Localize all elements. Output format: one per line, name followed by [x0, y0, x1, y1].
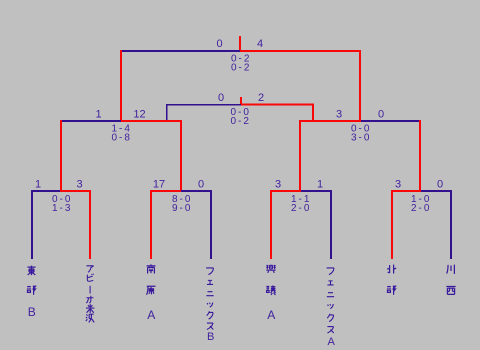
svg-text:0: 0 [198, 179, 204, 191]
name アビーカ米沢 [86, 266, 95, 323]
third-place right vertical [312, 104, 314, 120]
QF1 stub [60, 120, 62, 190]
third-place left vertical [166, 104, 167, 120]
svg-text:17: 17 [153, 179, 165, 191]
svg-text:9 - 0: 9 - 0 [172, 203, 191, 214]
svg-text:A: A [328, 336, 336, 348]
team line 南原A [150, 190, 152, 259]
QF3 line red half [270, 190, 301, 192]
team line 北部 [391, 190, 393, 259]
svg-text:12: 12 [133, 109, 145, 121]
final left vertical [120, 50, 122, 120]
QF3 stub [299, 120, 301, 190]
QF4 line red half [391, 190, 421, 192]
svg-text:3: 3 [336, 109, 342, 121]
svg-text:3: 3 [275, 179, 281, 191]
svg-text:1: 1 [35, 179, 41, 191]
name 興譲A [266, 265, 275, 322]
svg-text:3 - 0: 3 - 0 [351, 133, 370, 144]
svg-text:1: 1 [317, 179, 323, 191]
svg-text:2: 2 [258, 92, 264, 104]
QF1 line purple half [31, 190, 60, 192]
third-place line red half [241, 104, 314, 106]
svg-text:0: 0 [437, 179, 443, 191]
svg-text:0: 0 [216, 38, 222, 50]
team line 川西 [450, 190, 452, 259]
svg-text:3: 3 [395, 179, 401, 191]
name 南原A [147, 264, 156, 322]
team line 東部B [31, 190, 33, 259]
left semi purple half [60, 120, 121, 122]
final line purple half [120, 50, 240, 52]
svg-text:0: 0 [218, 92, 224, 104]
QF2 line purple half [181, 190, 212, 192]
champion stub [239, 36, 241, 50]
svg-text:3: 3 [76, 179, 82, 191]
svg-text:0 - 8: 0 - 8 [111, 133, 130, 144]
right semi red half [299, 120, 361, 122]
final line red half [240, 50, 361, 52]
svg-text:0 - 2: 0 - 2 [231, 63, 250, 74]
team line フェニックスB [210, 190, 212, 259]
QF2 line red half [150, 190, 181, 192]
svg-text:B: B [207, 331, 214, 343]
svg-text:B: B [28, 305, 36, 319]
final right vertical [359, 50, 361, 120]
svg-text:1: 1 [95, 109, 101, 121]
name 東部B [27, 266, 36, 319]
QF4 stub [419, 120, 421, 190]
name 北部 [387, 265, 396, 295]
name 川西 [446, 265, 455, 295]
svg-text:0: 0 [378, 109, 384, 121]
name フェニックスA [327, 268, 336, 348]
right semi purple half [361, 120, 421, 122]
QF2 stub [180, 120, 182, 190]
svg-text:0 - 2: 0 - 2 [230, 116, 249, 127]
svg-text:A: A [267, 308, 275, 322]
third-place line purple half [166, 104, 241, 105]
third-place stub [240, 97, 242, 104]
svg-text:2 - 0: 2 - 0 [411, 203, 430, 214]
svg-text:1 - 3: 1 - 3 [52, 203, 71, 214]
QF1 line red half [60, 190, 91, 192]
name フェニックスB [206, 268, 214, 343]
QF3 line purple half [301, 190, 332, 192]
team line アビーカ米沢 [89, 190, 91, 259]
svg-text:2 - 0: 2 - 0 [291, 203, 310, 214]
QF4 line purple half [421, 190, 452, 192]
team line 興譲A [270, 190, 272, 259]
left semi red half [121, 120, 182, 122]
svg-text:A: A [147, 308, 155, 322]
team line フェニックスA [330, 190, 332, 259]
svg-text:4: 4 [257, 38, 263, 50]
